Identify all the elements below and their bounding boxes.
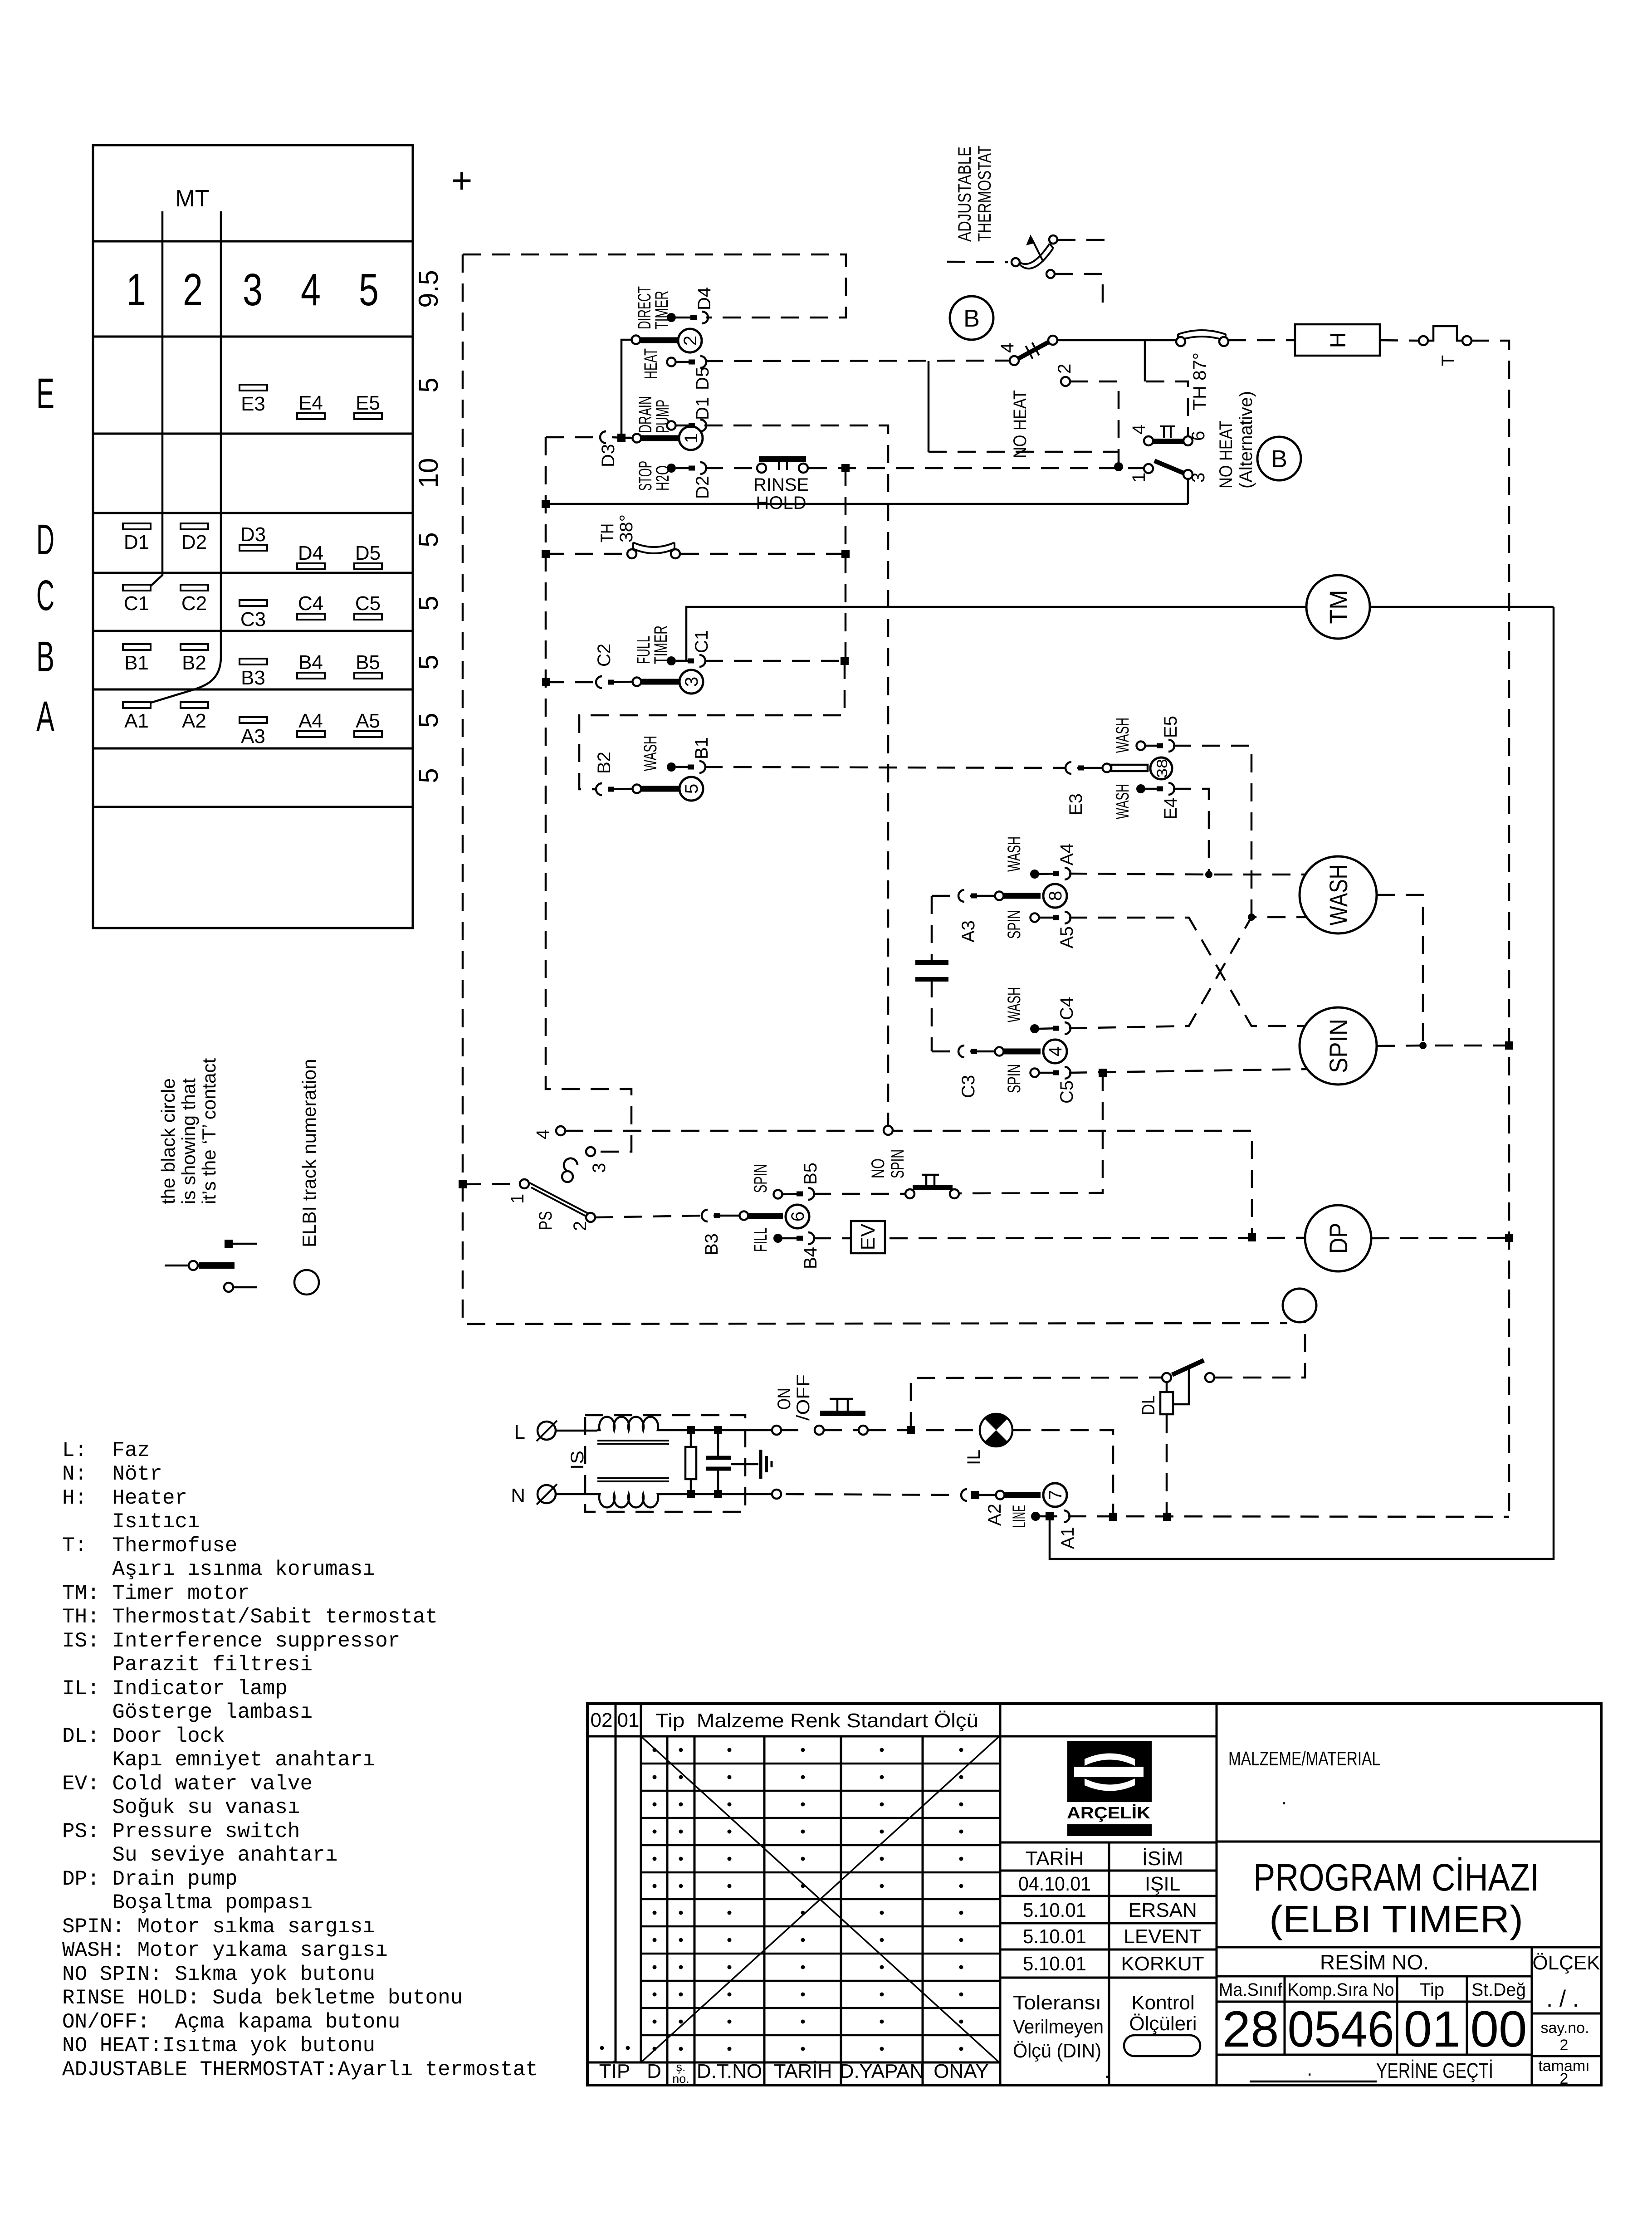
svg-text:DL: Door lock: DL: Door lock	[62, 1725, 225, 1748]
svg-text:5: 5	[413, 713, 444, 728]
svg-text:B: B	[963, 305, 980, 332]
svg-text:8: 8	[1046, 891, 1065, 901]
svg-text:. / .: . / .	[1546, 1986, 1579, 2012]
svg-text:B4: B4	[298, 651, 323, 674]
svg-text:TIMER: TIMER	[652, 291, 672, 329]
svg-text:(Alternative): (Alternative)	[1236, 391, 1256, 489]
svg-text:RESİM NO.: RESİM NO.	[1320, 1950, 1429, 1974]
svg-text:SPIN: SPIN	[1004, 910, 1024, 939]
svg-text:A3: A3	[958, 920, 978, 943]
svg-text:01: 01	[617, 1709, 640, 1731]
svg-text:0546: 0546	[1288, 2001, 1394, 2057]
svg-text:B3: B3	[241, 667, 265, 689]
svg-text:A1: A1	[124, 710, 149, 732]
svg-text:L: L	[514, 1421, 525, 1443]
svg-text:D2: D2	[693, 476, 713, 499]
svg-text:B: B	[1271, 445, 1287, 473]
svg-text:D1: D1	[124, 531, 149, 553]
svg-text:D.T.NO: D.T.NO	[697, 2060, 762, 2082]
svg-text:A5: A5	[356, 710, 380, 732]
svg-text:B1: B1	[692, 737, 712, 759]
svg-text:D4: D4	[298, 542, 323, 564]
svg-text:Gösterge lambası: Gösterge lambası	[62, 1700, 313, 1724]
svg-text:B4: B4	[801, 1247, 821, 1269]
svg-text:Isıtıcı: Isıtıcı	[62, 1510, 200, 1534]
svg-text:NO HEAT: NO HEAT	[1216, 420, 1236, 489]
svg-text:+: +	[451, 160, 473, 200]
svg-text:Verilmeyen: Verilmeyen	[1013, 2016, 1104, 2038]
svg-text:TİP: TİP	[599, 2060, 630, 2082]
svg-text:B2: B2	[182, 652, 206, 674]
svg-text:IL: IL	[964, 1450, 984, 1465]
svg-text:E3: E3	[1066, 793, 1086, 816]
svg-text:RINSE HOLD: Suda bekletme buto: RINSE HOLD: Suda bekletme butonu	[62, 1986, 463, 2010]
svg-text:LEVENT: LEVENT	[1124, 1925, 1201, 1948]
svg-text:HEAT: HEAT	[641, 348, 661, 379]
svg-text:2: 2	[183, 264, 203, 315]
svg-text:4: 4	[1129, 425, 1149, 435]
svg-text:A4: A4	[1057, 843, 1077, 865]
svg-text:B2: B2	[594, 752, 614, 774]
svg-text:E: E	[36, 370, 54, 418]
svg-text:4: 4	[1046, 1046, 1065, 1056]
svg-text:7: 7	[1046, 1490, 1065, 1500]
svg-text:5: 5	[413, 532, 444, 547]
svg-text:C2: C2	[181, 592, 207, 615]
svg-text:Soğuk su vanası: Soğuk su vanası	[62, 1796, 300, 1819]
svg-text:the black circle: the black circle	[157, 1078, 179, 1204]
svg-text:B1: B1	[124, 652, 149, 674]
svg-text:A2: A2	[985, 1504, 1005, 1526]
svg-text:H: H	[1326, 332, 1350, 348]
svg-text:B3: B3	[702, 1233, 722, 1256]
svg-text:ONAY: ONAY	[934, 2060, 988, 2082]
svg-text:DL: DL	[1139, 1395, 1158, 1415]
svg-text:say.no.: say.no.	[1540, 2019, 1589, 2037]
svg-text:IL: Indicator lamp: IL: Indicator lamp	[62, 1677, 288, 1700]
svg-text:2: 2	[1055, 364, 1075, 374]
svg-text:DP: DP	[1324, 1223, 1353, 1254]
svg-text:Komp.Sıra No: Komp.Sıra No	[1288, 1980, 1394, 2000]
svg-text:PS: Pressure switch: PS: Pressure switch	[62, 1820, 300, 1843]
svg-text:Kontrol: Kontrol	[1131, 1992, 1194, 2014]
svg-text:5.10.01: 5.10.01	[1023, 1899, 1086, 1921]
svg-text:4: 4	[301, 264, 321, 315]
svg-text:00: 00	[1471, 2001, 1527, 2057]
svg-text:WASH: WASH	[640, 736, 660, 771]
svg-text:PS: PS	[536, 1211, 556, 1230]
svg-text:C1: C1	[124, 592, 149, 615]
svg-text:C4: C4	[298, 592, 323, 615]
svg-text:NO: NO	[868, 1158, 888, 1178]
svg-text:B5: B5	[801, 1163, 821, 1185]
svg-text:3: 3	[589, 1163, 609, 1173]
svg-text:N: N	[511, 1485, 525, 1507]
svg-text:TIMER: TIMER	[651, 625, 671, 664]
svg-text:D.YAPAN: D.YAPAN	[840, 2060, 924, 2082]
svg-text:D4: D4	[694, 287, 714, 310]
svg-text:A: A	[36, 693, 54, 741]
svg-text:D: D	[36, 516, 54, 564]
svg-text:Boşaltma pompası: Boşaltma pompası	[62, 1891, 313, 1915]
svg-text:.: .	[1281, 1787, 1287, 1809]
svg-text:is showing that: is showing that	[178, 1078, 199, 1204]
svg-text:D3: D3	[240, 523, 266, 546]
svg-text:TH: TH	[597, 523, 617, 542]
svg-text:NO HEAT:Isıtma yok butonu: NO HEAT:Isıtma yok butonu	[62, 2034, 375, 2057]
svg-text:B: B	[36, 633, 54, 681]
svg-text:A1: A1	[1058, 1527, 1078, 1549]
svg-text:YERİNE GEÇTİ: YERİNE GEÇTİ	[1376, 2059, 1493, 2082]
svg-text:5: 5	[413, 768, 444, 783]
svg-text:1: 1	[1129, 473, 1149, 483]
svg-text:3: 3	[682, 677, 702, 687]
svg-text:T: Thermofuse: T: Thermofuse	[62, 1534, 237, 1558]
svg-text:38: 38	[1154, 759, 1170, 778]
svg-text:FILL: FILL	[751, 1227, 771, 1252]
svg-text:N: Nötr: N: Nötr	[62, 1462, 162, 1486]
svg-text:ELBI track numeration: ELBI track numeration	[298, 1059, 320, 1247]
svg-text:1: 1	[126, 264, 146, 315]
svg-text:D: D	[647, 2060, 661, 2082]
svg-text:Toleransı: Toleransı	[1013, 1992, 1101, 2014]
svg-text:5: 5	[682, 784, 702, 794]
svg-text:D2: D2	[181, 531, 207, 553]
svg-text:Tip: Tip	[1420, 1980, 1444, 2000]
svg-text:IS: Interference suppressor: IS: Interference suppressor	[62, 1629, 400, 1653]
svg-text:1: 1	[681, 433, 701, 443]
svg-text:3: 3	[243, 264, 263, 315]
svg-text:NO HEAT: NO HEAT	[1010, 390, 1030, 458]
svg-text:TH: Thermostat/Sabit termostat: TH: Thermostat/Sabit termostat	[62, 1605, 438, 1629]
svg-text:E4: E4	[298, 392, 323, 414]
svg-text:5: 5	[413, 596, 444, 611]
svg-text:SPIN: SPIN	[1324, 1019, 1353, 1073]
svg-text:THERMOSTAT: THERMOSTAT	[975, 146, 995, 242]
svg-text:WASH: Motor yıkama sargısı: WASH: Motor yıkama sargısı	[62, 1939, 388, 1962]
svg-text:C1: C1	[692, 630, 712, 653]
svg-text:EV: Cold water valve: EV: Cold water valve	[62, 1772, 313, 1796]
svg-text:NO SPIN: Sıkma yok butonu: NO SPIN: Sıkma yok butonu	[62, 1963, 375, 1986]
svg-text:04.10.01: 04.10.01	[1018, 1873, 1091, 1895]
svg-text:E5: E5	[1161, 716, 1181, 738]
svg-text:/OFF: /OFF	[793, 1374, 813, 1421]
svg-text:IŞIL: IŞIL	[1145, 1873, 1180, 1895]
svg-text:B5: B5	[356, 651, 380, 674]
svg-text:ADJUSTABLE: ADJUSTABLE	[955, 147, 975, 242]
svg-text:D5: D5	[355, 542, 381, 564]
svg-text:C4: C4	[1057, 997, 1077, 1020]
svg-text:TM: TM	[1324, 590, 1353, 624]
svg-text:.: .	[1105, 2060, 1110, 2082]
svg-text:WASH: WASH	[1113, 718, 1133, 753]
svg-text:Ölçü (DIN): Ölçü (DIN)	[1013, 2040, 1101, 2062]
svg-text:SPIN: SPIN	[1004, 1064, 1024, 1093]
svg-text:Ölçüleri: Ölçüleri	[1129, 2013, 1197, 2035]
svg-text:5.10.01: 5.10.01	[1023, 1953, 1086, 1975]
svg-text:2: 2	[680, 336, 700, 346]
svg-text:TH 87°: TH 87°	[1190, 352, 1210, 410]
svg-text:ÖLÇEK: ÖLÇEK	[1532, 1952, 1600, 1974]
svg-text:3: 3	[1188, 473, 1208, 483]
svg-text:D1: D1	[693, 397, 713, 420]
svg-text:St.Değ: St.Değ	[1471, 1980, 1526, 2000]
svg-text:ERSAN: ERSAN	[1128, 1899, 1197, 1921]
svg-text:L: Faz: L: Faz	[62, 1439, 150, 1462]
svg-text:PROGRAM CİHAZI: PROGRAM CİHAZI	[1253, 1856, 1539, 1899]
svg-text:Su seviye anahtarı: Su seviye anahtarı	[62, 1843, 337, 1867]
svg-text:HOLD: HOLD	[756, 493, 806, 513]
svg-text:it’s the ‘T’ contact: it’s the ‘T’ contact	[198, 1058, 220, 1204]
svg-text:Ma.Sınıf: Ma.Sınıf	[1219, 1980, 1283, 2000]
svg-text:A4: A4	[298, 710, 323, 732]
svg-text:RINSE: RINSE	[753, 475, 809, 495]
svg-text:C: C	[36, 572, 54, 620]
svg-text:IS: IS	[567, 1451, 587, 1470]
svg-text:ON: ON	[774, 1388, 794, 1410]
svg-text:6: 6	[1188, 431, 1208, 441]
svg-text:KORKUT: KORKUT	[1121, 1953, 1204, 1975]
svg-text:no.: no.	[672, 2072, 689, 2086]
svg-text:C3: C3	[958, 1075, 978, 1098]
svg-text:02: 02	[591, 1709, 613, 1731]
svg-text:4: 4	[997, 343, 1017, 353]
svg-text:WASH: WASH	[1004, 987, 1024, 1022]
svg-text:4: 4	[533, 1129, 553, 1139]
svg-text:2: 2	[570, 1221, 590, 1231]
svg-text:D3: D3	[598, 444, 618, 467]
svg-text:DP: Drain pump: DP: Drain pump	[62, 1867, 237, 1891]
svg-text:T: T	[1438, 355, 1458, 366]
svg-text:SPIN: Motor sıkma sargısı: SPIN: Motor sıkma sargısı	[62, 1915, 375, 1939]
svg-text:6: 6	[788, 1212, 808, 1221]
svg-text:D5: D5	[693, 367, 713, 390]
svg-text:E5: E5	[356, 392, 380, 414]
svg-text:.: .	[1307, 2058, 1312, 2080]
svg-text:2: 2	[1560, 2037, 1569, 2054]
svg-text:WASH: WASH	[1113, 784, 1133, 819]
svg-text:E3: E3	[241, 393, 265, 415]
svg-text:10: 10	[413, 458, 444, 489]
svg-text:C3: C3	[240, 608, 266, 630]
svg-text:WASH: WASH	[1324, 865, 1353, 926]
svg-text:ARÇELİK: ARÇELİK	[1067, 1803, 1150, 1822]
svg-text:A3: A3	[241, 725, 265, 748]
svg-text:Aşırı ısınma koruması: Aşırı ısınma koruması	[62, 1558, 375, 1581]
svg-text:TARİH: TARİH	[1026, 1847, 1084, 1870]
svg-text:1: 1	[508, 1194, 528, 1204]
svg-text:C5: C5	[1057, 1080, 1077, 1104]
svg-text:A2: A2	[182, 710, 206, 732]
svg-text:EV: EV	[857, 1223, 879, 1250]
svg-text:TARİH: TARİH	[774, 2060, 832, 2082]
svg-text:2: 2	[1560, 2070, 1569, 2087]
svg-text:01: 01	[1404, 2001, 1461, 2057]
svg-text:9.5: 9.5	[413, 270, 444, 308]
svg-text:(ELBI TIMER): (ELBI TIMER)	[1269, 1898, 1523, 1940]
svg-text:LINE: LINE	[1009, 1505, 1029, 1528]
svg-text:Kapı emniyet anahtarı: Kapı emniyet anahtarı	[62, 1748, 375, 1772]
svg-text:WASH: WASH	[1004, 836, 1024, 872]
svg-text:TM: Timer motor: TM: Timer motor	[62, 1582, 250, 1605]
svg-text:Tip Malzeme Renk Standart Ölç: Tip Malzeme Renk Standart Ölçü	[655, 1710, 978, 1732]
svg-text:ON/OFF: Açma kapama butonu: ON/OFF: Açma kapama butonu	[62, 2010, 400, 2034]
svg-text:MALZEME/MATERIAL: MALZEME/MATERIAL	[1228, 1748, 1380, 1770]
svg-text:MT: MT	[175, 186, 209, 212]
svg-text:5: 5	[413, 377, 444, 392]
svg-text:H2O: H2O	[653, 465, 673, 491]
svg-text:Parazit filtresi: Parazit filtresi	[62, 1653, 313, 1676]
svg-text:C5: C5	[355, 592, 381, 615]
svg-text:38°: 38°	[616, 514, 636, 542]
svg-text:SPIN: SPIN	[888, 1149, 908, 1178]
svg-text:H: Heater: H: Heater	[62, 1486, 187, 1510]
svg-text:A5: A5	[1057, 926, 1077, 948]
svg-text:5.10.01: 5.10.01	[1023, 1925, 1086, 1948]
svg-text:ADJUSTABLE THERMOSTAT:Ayarlı t: ADJUSTABLE THERMOSTAT:Ayarlı termostat	[62, 2058, 538, 2081]
svg-text:5: 5	[359, 264, 379, 315]
svg-text:C2: C2	[594, 644, 614, 667]
svg-text:SPIN: SPIN	[751, 1164, 771, 1193]
svg-text:E4: E4	[1161, 797, 1181, 820]
svg-text:İSİM: İSİM	[1142, 1847, 1183, 1870]
svg-text:5: 5	[413, 655, 444, 669]
svg-text:PUMP: PUMP	[653, 400, 673, 433]
svg-text:28: 28	[1222, 2001, 1279, 2057]
